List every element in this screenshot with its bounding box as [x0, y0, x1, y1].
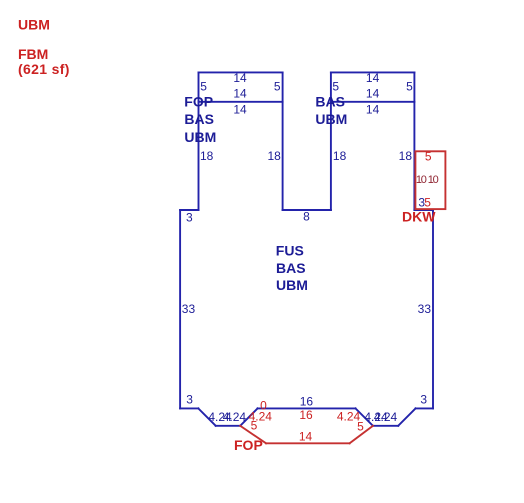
svg-text:FBM: FBM — [18, 46, 48, 62]
svg-text:3: 3 — [186, 210, 193, 224]
svg-text:8: 8 — [303, 210, 310, 224]
wall: gap bottom (8 ft) — [283, 209, 331, 211]
wall: bottom left 3 ft segment — [180, 407, 198, 409]
svg-text:18: 18 — [399, 149, 413, 163]
svg-text:5: 5 — [357, 420, 364, 434]
svg-text:FOP: FOP — [234, 437, 263, 453]
wall: bottom right outer diagonal (4.24) — [398, 408, 415, 425]
driveway DKW rectangle — [415, 151, 445, 209]
wall: bottom left outer diagonal (4.24) — [198, 408, 215, 425]
svg-text:BAS: BAS — [184, 111, 214, 127]
svg-text:5: 5 — [424, 195, 431, 209]
svg-text:(621 sf): (621 sf) — [18, 61, 70, 77]
wall: left step (3 ft) — [180, 209, 198, 211]
svg-text:3: 3 — [186, 393, 193, 407]
svg-text:33: 33 — [182, 302, 196, 316]
svg-text:18: 18 — [200, 149, 214, 163]
wall: right tower right side (5+18 ft) — [413, 72, 415, 210]
svg-text:14: 14 — [366, 71, 380, 85]
porch FOP left slant (5 ft) — [240, 426, 266, 444]
wall: left tower front line (14 ft) — [199, 101, 283, 103]
svg-text:UBM: UBM — [184, 129, 216, 145]
svg-text:5: 5 — [425, 150, 432, 164]
svg-text:FUS: FUS — [276, 243, 304, 259]
wall: bottom right 3 ft segment — [416, 407, 433, 409]
svg-text:4.24: 4.24 — [374, 410, 398, 424]
wall: right main wall (33 ft) — [432, 210, 434, 408]
wall: right tower front line (14 ft) — [331, 101, 415, 103]
svg-text:10: 10 — [416, 174, 427, 186]
svg-text:16: 16 — [300, 394, 314, 408]
svg-text:14: 14 — [233, 87, 247, 101]
svg-text:BAS: BAS — [315, 93, 345, 109]
svg-text:16: 16 — [299, 408, 313, 422]
svg-text:18: 18 — [267, 149, 281, 163]
porch FOP right slant (5 ft) — [350, 426, 373, 444]
wall: left tower right side (5+18 ft) — [282, 72, 284, 210]
wall: left tower left side (5+18 ft) — [198, 72, 200, 210]
svg-text:18: 18 — [333, 149, 347, 163]
svg-text:FOP: FOP — [184, 93, 213, 109]
svg-text:14: 14 — [366, 102, 380, 116]
wall: bottom left inner diagonal (4.24) — [240, 408, 257, 425]
svg-text:14: 14 — [299, 429, 313, 443]
svg-text:3: 3 — [420, 393, 427, 407]
wall: left main wall (33 ft) — [179, 210, 181, 408]
wall: bottom left notch base — [216, 425, 241, 427]
svg-text:5: 5 — [332, 80, 339, 94]
svg-text:4.24: 4.24 — [223, 410, 247, 424]
svg-text:UBM: UBM — [18, 16, 50, 32]
wall: right step (3 ft) — [414, 209, 433, 211]
wall: bottom center 16 ft line — [258, 407, 356, 409]
svg-text:5: 5 — [251, 419, 258, 433]
wall: bottom right inner diagonal (4.24) — [356, 408, 373, 425]
svg-text:UBM: UBM — [315, 111, 347, 127]
svg-text:14: 14 — [366, 87, 380, 101]
svg-text:UBM: UBM — [276, 277, 308, 293]
svg-text:14: 14 — [233, 102, 247, 116]
wall: bottom right notch base — [373, 425, 398, 427]
svg-text:5: 5 — [274, 80, 281, 94]
wall: left tower top (14 ft) — [199, 71, 283, 73]
svg-text:DKW: DKW — [402, 208, 436, 224]
svg-text:5: 5 — [406, 80, 413, 94]
svg-text:14: 14 — [233, 71, 247, 85]
svg-text:10: 10 — [428, 174, 439, 186]
svg-text:33: 33 — [418, 302, 432, 316]
wall: right tower left side (18+5 ft) — [330, 72, 332, 210]
porch FOP bottom (14 ft) — [266, 442, 350, 444]
svg-text:5: 5 — [200, 80, 207, 94]
svg-text:BAS: BAS — [276, 260, 306, 276]
wall: right tower top (14 ft) — [331, 71, 415, 73]
